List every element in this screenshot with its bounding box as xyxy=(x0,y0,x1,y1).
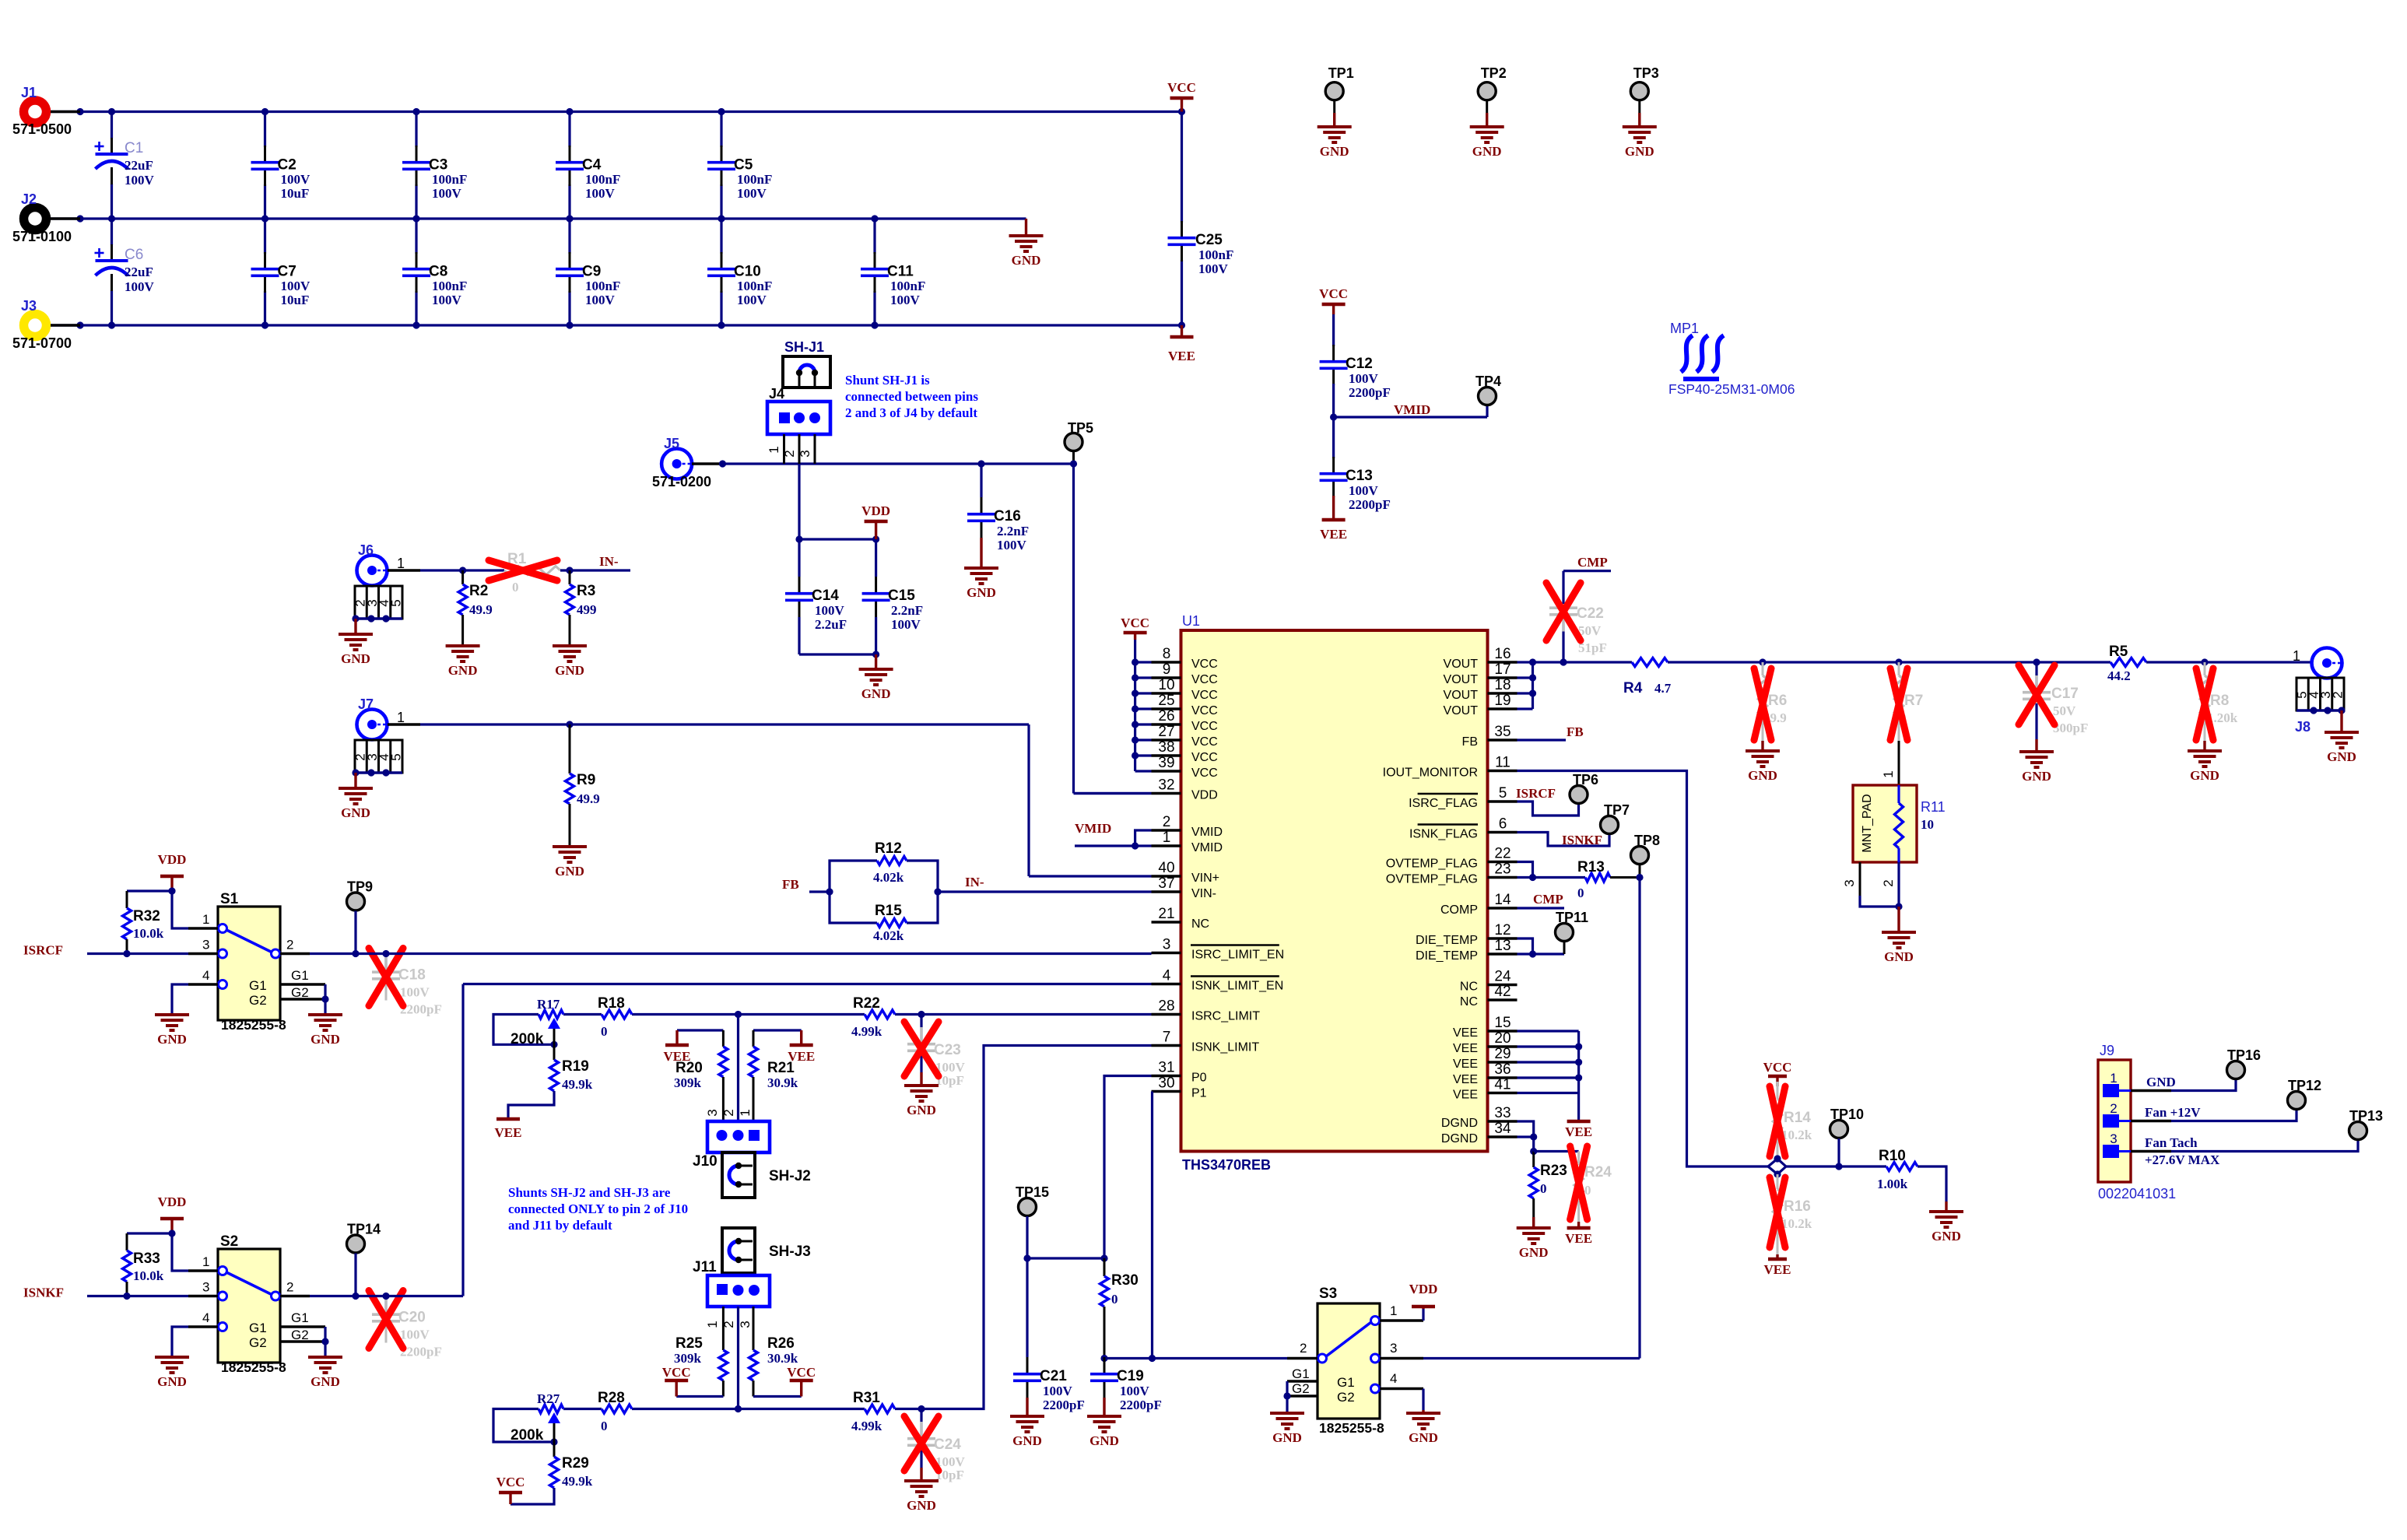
svg-text:1: 1 xyxy=(705,1321,720,1328)
resistor R4 4.7 xyxy=(1623,658,1763,697)
wire J5 to J4 and TP5 xyxy=(719,460,1074,467)
svg-text:VEE: VEE xyxy=(1453,1042,1478,1055)
connector J7 xyxy=(357,696,421,740)
svg-text:G1: G1 xyxy=(1337,1375,1355,1390)
svg-text:TP7: TP7 xyxy=(1604,802,1630,818)
svg-text:ISRC_LIMIT_EN: ISRC_LIMIT_EN xyxy=(1191,949,1284,962)
svg-text:2: 2 xyxy=(2110,1101,2117,1116)
svg-text:R17: R17 xyxy=(537,997,560,1012)
svg-text:OVTEMP_FLAG: OVTEMP_FLAG xyxy=(1386,858,1478,871)
power VDD for S2 xyxy=(158,1194,187,1233)
svg-text:2: 2 xyxy=(1163,814,1171,830)
ground C16 xyxy=(964,554,998,600)
svg-text:GND: GND xyxy=(2146,1075,2176,1089)
ground S2 G1 G2 xyxy=(308,1357,342,1389)
svg-text:26: 26 xyxy=(1158,708,1174,724)
power VDD for S1 xyxy=(158,852,187,891)
ground S3 pin 4 xyxy=(1406,1413,1440,1445)
wire J9 pin 3 to TP13 xyxy=(2131,1140,2358,1152)
svg-text:10.0k: 10.0k xyxy=(133,926,164,941)
resistor R16 10.2k crossed out xyxy=(1770,1174,1812,1254)
svg-text:100V: 100V xyxy=(737,186,767,201)
svg-text:4: 4 xyxy=(1163,968,1171,984)
svg-text:ISNK_LIMIT: ISNK_LIMIT xyxy=(1191,1041,1259,1054)
svg-text:J2: J2 xyxy=(21,191,37,207)
power VCC for U1 xyxy=(1121,616,1149,640)
svg-text:GND: GND xyxy=(1089,1433,1119,1448)
resistor R19 49.9k xyxy=(508,1044,593,1117)
resistor R5 44.2 xyxy=(2107,644,2146,683)
svg-text:16: 16 xyxy=(1494,646,1511,662)
svg-text:VCC: VCC xyxy=(1191,735,1218,749)
wire COMP pin 14 xyxy=(1518,907,1565,909)
power VCC for R14 xyxy=(1763,1060,1792,1086)
ground C23 xyxy=(904,1072,939,1117)
svg-text:3: 3 xyxy=(1842,879,1857,886)
svg-text:30.9k: 30.9k xyxy=(767,1351,798,1366)
svg-text:VEE: VEE xyxy=(1453,1058,1478,1071)
resistor R20 309k xyxy=(674,1030,728,1121)
wire MNT_PAD pins 2 3 to ground xyxy=(1842,862,1903,910)
svg-text:VDD: VDD xyxy=(158,1194,187,1209)
svg-text:GND: GND xyxy=(2327,749,2356,764)
svg-text:VMID: VMID xyxy=(1191,826,1223,839)
svg-text:GND: GND xyxy=(157,1374,187,1389)
svg-text:3: 3 xyxy=(738,1321,753,1328)
net label IN- at VIN- xyxy=(965,875,984,889)
svg-text:R19: R19 xyxy=(562,1058,589,1075)
wire S1 pin 4 to ground xyxy=(172,984,188,1015)
svg-text:R30: R30 xyxy=(1111,1272,1139,1289)
net label Fan +12V xyxy=(2145,1105,2201,1120)
svg-text:GND: GND xyxy=(157,1032,187,1047)
svg-text:J1: J1 xyxy=(21,85,37,100)
resistor R15 4.02k xyxy=(873,903,907,943)
capacitor C3 100nF 100V xyxy=(402,112,467,219)
svg-text:C18: C18 xyxy=(398,967,426,984)
test point TP13 xyxy=(2349,1108,2384,1140)
net label FB at pin 35 xyxy=(1567,724,1584,739)
svg-text:15: 15 xyxy=(1494,1015,1511,1031)
note shunts SH-J2 SH-J3 xyxy=(508,1185,688,1233)
wire J9 pin 1 to TP16 xyxy=(2131,1079,2236,1091)
svg-text:R7: R7 xyxy=(1904,693,1923,709)
capacitor C16 2.2nF 100V xyxy=(967,464,1029,554)
svg-text:40: 40 xyxy=(1158,860,1174,876)
svg-text:R21: R21 xyxy=(767,1060,795,1076)
wire J11 pin 2 down xyxy=(737,1307,739,1409)
svg-text:1: 1 xyxy=(1881,770,1896,777)
power VEE for R16 xyxy=(1764,1254,1791,1277)
svg-text:J3: J3 xyxy=(21,298,37,314)
svg-text:SH-J1: SH-J1 xyxy=(784,339,824,355)
power VEE for R19 xyxy=(495,1119,522,1140)
wire DIE_TEMP pins 12 13 xyxy=(1518,938,1565,958)
capacitor C5 100nF 100V xyxy=(707,112,772,219)
svg-text:J4: J4 xyxy=(769,386,784,402)
svg-text:0022041031: 0022041031 xyxy=(2098,1186,2176,1201)
svg-text:TP12: TP12 xyxy=(2288,1078,2321,1093)
capacitor C4 100nF 100V xyxy=(556,112,620,219)
ground R2 xyxy=(446,646,480,678)
resistor R18 0 xyxy=(598,995,632,1039)
svg-text:34: 34 xyxy=(1494,1121,1511,1137)
wire ISNKF net xyxy=(87,1293,188,1300)
wire DGND pins 33 34 xyxy=(1518,1121,1538,1155)
svg-text:1: 1 xyxy=(1390,1303,1397,1318)
svg-text:100V: 100V xyxy=(432,293,462,307)
svg-text:G2: G2 xyxy=(249,1335,267,1350)
svg-text:FSP40-25M31-0M06: FSP40-25M31-0M06 xyxy=(1668,381,1795,397)
capacitor C13 100V 2200pF xyxy=(1320,417,1391,517)
resistor R22 4.99k xyxy=(851,995,895,1039)
svg-text:J10: J10 xyxy=(693,1153,718,1170)
svg-text:50V: 50V xyxy=(2053,703,2076,718)
svg-text:10.0k: 10.0k xyxy=(133,1268,164,1283)
wire R25 to VCC xyxy=(676,1381,723,1397)
svg-text:C1: C1 xyxy=(125,140,143,156)
svg-text:100V: 100V xyxy=(281,279,311,293)
svg-text:0: 0 xyxy=(601,1024,608,1039)
svg-text:TP14: TP14 xyxy=(347,1222,381,1237)
svg-text:S3: S3 xyxy=(1319,1286,1337,1302)
wire P0 pin 31 xyxy=(1104,1076,1152,1259)
wire S2 pin 4 to ground xyxy=(172,1327,188,1357)
svg-text:ISNKF: ISNKF xyxy=(1562,833,1602,847)
svg-text:100nF: 100nF xyxy=(585,279,620,293)
svg-text:100V: 100V xyxy=(432,186,462,201)
wire ISNK_LIMIT line xyxy=(563,1046,1152,1413)
svg-text:TP2: TP2 xyxy=(1481,65,1507,81)
svg-text:R5: R5 xyxy=(2109,644,2128,660)
svg-text:GND: GND xyxy=(2190,768,2219,783)
svg-text:VCC: VCC xyxy=(1319,286,1348,301)
svg-text:13: 13 xyxy=(1494,938,1511,954)
wire ISRC_FLAG to TP6 xyxy=(1518,802,1579,816)
svg-text:C22: C22 xyxy=(1577,605,1604,622)
svg-text:VEE: VEE xyxy=(1453,1026,1478,1040)
junction dots bottom rail xyxy=(76,321,1185,328)
svg-text:P1: P1 xyxy=(1191,1087,1207,1100)
wire J10 pin 2 xyxy=(737,1015,739,1122)
capacitor C23 10pF crossed out xyxy=(904,1015,966,1089)
svg-text:J5: J5 xyxy=(664,436,679,451)
svg-text:24: 24 xyxy=(1494,969,1511,985)
svg-text:C2: C2 xyxy=(278,157,296,174)
svg-text:R4: R4 xyxy=(1623,680,1643,696)
svg-text:200k: 200k xyxy=(511,1031,544,1047)
svg-text:R8: R8 xyxy=(2210,693,2229,709)
svg-text:GND: GND xyxy=(1409,1430,1438,1445)
connector J2 571-0100 xyxy=(12,191,80,244)
ground MNT_PAD xyxy=(1882,907,1916,964)
resistor R25 309k xyxy=(674,1307,728,1397)
test point TP5 xyxy=(1065,420,1093,464)
ground R8 xyxy=(2188,741,2222,783)
svg-text:1: 1 xyxy=(202,912,209,927)
svg-text:IOUT_MONITOR: IOUT_MONITOR xyxy=(1383,766,1478,780)
svg-text:C12: C12 xyxy=(1346,356,1373,372)
resistor R26 30.9k xyxy=(749,1307,798,1397)
svg-text:10uF: 10uF xyxy=(281,186,310,201)
capacitor C7 100V 10uF xyxy=(251,219,311,325)
note shunt SH-J1 xyxy=(845,373,978,420)
svg-text:VOUT: VOUT xyxy=(1444,658,1479,671)
ground S3 G1 G2 xyxy=(1270,1413,1304,1445)
wire S2 G1 G2 to ground xyxy=(321,1327,328,1357)
svg-text:309k: 309k xyxy=(674,1075,702,1090)
svg-text:100V: 100V xyxy=(1198,261,1229,276)
svg-text:VDD: VDD xyxy=(158,852,187,867)
svg-text:2200pF: 2200pF xyxy=(1120,1398,1162,1412)
resistor R8 1.20k crossed out xyxy=(2196,662,2238,741)
wire R20 to VEE xyxy=(677,1030,723,1044)
svg-text:39: 39 xyxy=(1158,755,1174,771)
svg-text:R22: R22 xyxy=(853,995,880,1012)
wire VOUT main xyxy=(1518,658,1633,665)
capacitor C24 10pF crossed out xyxy=(904,1409,966,1483)
svg-text:VEE: VEE xyxy=(1168,349,1195,363)
svg-text:2: 2 xyxy=(286,938,293,952)
svg-text:C6: C6 xyxy=(125,247,143,263)
svg-text:10.2k: 10.2k xyxy=(1781,1216,1812,1231)
svg-text:44.2: 44.2 xyxy=(2107,668,2131,683)
svg-text:R11: R11 xyxy=(1921,799,1946,815)
svg-text:49.9k: 49.9k xyxy=(562,1077,593,1092)
svg-text:2200pF: 2200pF xyxy=(1349,385,1391,400)
ground R9 xyxy=(553,847,587,879)
svg-text:R14: R14 xyxy=(1784,1110,1811,1126)
mount pad MNT_PAD with resistor R11 xyxy=(1853,785,1946,862)
wire VMID node xyxy=(1330,405,1487,421)
wire VOUT bus xyxy=(1518,662,1537,709)
connector J6 xyxy=(357,542,421,586)
svg-text:100V: 100V xyxy=(585,293,616,307)
capacitor C19 2200pF xyxy=(1090,1357,1162,1412)
svg-text:VOUT: VOUT xyxy=(1444,689,1479,702)
jumper shunt SH-J2 xyxy=(722,1152,811,1198)
svg-text:OVTEMP_FLAG: OVTEMP_FLAG xyxy=(1386,873,1478,886)
svg-text:4.99k: 4.99k xyxy=(851,1419,882,1433)
resistor R1 0 crossed out xyxy=(489,551,560,595)
ground C17 xyxy=(2019,739,2054,784)
svg-text:J9: J9 xyxy=(2100,1043,2114,1058)
svg-text:ISNKF: ISNKF xyxy=(23,1286,64,1300)
wire TP5 to pin 32 VDD xyxy=(1070,460,1152,793)
svg-text:FB: FB xyxy=(1462,735,1478,749)
svg-text:571-0500: 571-0500 xyxy=(12,121,72,137)
power VEE for C13 xyxy=(1320,517,1347,542)
svg-text:100V: 100V xyxy=(585,186,616,201)
svg-text:VMID: VMID xyxy=(1191,841,1223,854)
potentiometer R27 200k xyxy=(493,1391,563,1446)
svg-text:ISNK_LIMIT_EN: ISNK_LIMIT_EN xyxy=(1191,980,1283,993)
capacitor C12 100V 2200pF xyxy=(1320,314,1391,417)
svg-text:TP15: TP15 xyxy=(1016,1184,1049,1200)
svg-text:2200pF: 2200pF xyxy=(400,1002,442,1017)
test point TP7 xyxy=(1601,802,1630,834)
wire VDD node horizontal xyxy=(795,535,879,542)
resistor R30 0 xyxy=(1100,1258,1139,1359)
switch S1 1825255-8 xyxy=(188,891,325,1033)
ground C24 xyxy=(904,1468,939,1513)
svg-text:VEE: VEE xyxy=(1565,1231,1592,1246)
svg-text:TP11: TP11 xyxy=(1556,910,1588,925)
svg-text:4.02k: 4.02k xyxy=(873,870,904,885)
svg-text:COMP: COMP xyxy=(1440,903,1478,917)
svg-text:R16: R16 xyxy=(1784,1198,1811,1215)
svg-text:100V: 100V xyxy=(890,293,921,307)
svg-text:100V: 100V xyxy=(400,1328,430,1342)
svg-text:VIN-: VIN- xyxy=(1191,887,1216,900)
svg-text:TP1: TP1 xyxy=(1328,65,1354,81)
svg-text:+27.6V MAX: +27.6V MAX xyxy=(2145,1152,2220,1167)
svg-text:G2: G2 xyxy=(1337,1390,1355,1405)
test point TP4 xyxy=(1475,374,1501,405)
svg-text:2200pF: 2200pF xyxy=(1349,497,1391,512)
svg-text:NC: NC xyxy=(1460,995,1478,1009)
svg-text:VOUT: VOUT xyxy=(1444,673,1479,686)
svg-text:5: 5 xyxy=(1499,785,1507,802)
svg-text:C16: C16 xyxy=(994,508,1021,524)
svg-text:MNT_PAD: MNT_PAD xyxy=(1861,794,1874,852)
test point TP14 xyxy=(347,1222,381,1300)
svg-text:GND: GND xyxy=(1320,144,1349,159)
svg-text:100nF: 100nF xyxy=(1198,247,1233,262)
svg-text:GND: GND xyxy=(1932,1229,1961,1244)
svg-text:VEE: VEE xyxy=(1764,1262,1791,1277)
svg-text:TP13: TP13 xyxy=(2349,1108,2383,1124)
svg-text:NC: NC xyxy=(1191,917,1209,931)
svg-text:571-0700: 571-0700 xyxy=(12,335,72,351)
connector J4 3-pin header xyxy=(767,386,830,464)
svg-text:1: 1 xyxy=(767,446,781,453)
svg-text:10: 10 xyxy=(1921,817,1934,832)
svg-text:30: 30 xyxy=(1158,1075,1174,1092)
svg-text:100V: 100V xyxy=(281,172,311,187)
wire R5 to J8 xyxy=(2146,658,2311,665)
svg-text:1: 1 xyxy=(2110,1071,2117,1086)
svg-text:IN-: IN- xyxy=(599,554,619,569)
net label ISRCF xyxy=(1516,786,1556,801)
svg-text:GND: GND xyxy=(1884,949,1914,964)
test point TP12 xyxy=(2288,1078,2322,1110)
svg-text:R12: R12 xyxy=(875,840,902,857)
svg-text:Fan +12V: Fan +12V xyxy=(2145,1105,2201,1120)
svg-text:R13: R13 xyxy=(1577,859,1605,875)
svg-text:5: 5 xyxy=(388,599,403,606)
svg-text:300pF: 300pF xyxy=(2053,721,2088,735)
svg-text:connected between pins: connected between pins xyxy=(845,389,978,404)
svg-text:10.2k: 10.2k xyxy=(1781,1128,1812,1142)
svg-text:VEE: VEE xyxy=(1565,1124,1592,1139)
svg-text:TP4: TP4 xyxy=(1475,374,1501,389)
svg-text:3: 3 xyxy=(798,450,812,457)
net label Fan Tach xyxy=(2145,1135,2198,1150)
resistor R13 0 xyxy=(1577,859,1640,900)
svg-text:4.02k: 4.02k xyxy=(873,928,904,943)
svg-text:GND: GND xyxy=(448,663,478,678)
svg-text:R23: R23 xyxy=(1540,1163,1567,1179)
svg-text:TP3: TP3 xyxy=(1633,65,1659,81)
svg-text:499: 499 xyxy=(577,602,597,617)
svg-text:100nF: 100nF xyxy=(890,279,925,293)
wire VCC top rail xyxy=(50,111,1182,113)
svg-text:1.00k: 1.00k xyxy=(1877,1177,1908,1191)
svg-text:3: 3 xyxy=(1390,1341,1397,1356)
svg-text:GND: GND xyxy=(1472,144,1502,159)
svg-text:VMID: VMID xyxy=(1394,402,1430,417)
resistor R3x 10.0k for S2 xyxy=(123,1233,164,1296)
svg-text:3: 3 xyxy=(202,938,209,952)
svg-text:2200pF: 2200pF xyxy=(1043,1398,1085,1412)
power VEE bottom rail xyxy=(1168,325,1195,363)
svg-text:18: 18 xyxy=(1494,677,1511,693)
net label CMP at pin 14 xyxy=(1533,892,1563,907)
connector J6 shield pins xyxy=(339,586,403,666)
wire ISRC_LIMIT line xyxy=(563,1011,1152,1018)
test point TP16 xyxy=(2227,1047,2261,1079)
connector J9 0022041031 xyxy=(2098,1043,2176,1201)
svg-text:1: 1 xyxy=(202,1254,209,1269)
connector J8 xyxy=(2293,648,2342,735)
svg-text:VCC: VCC xyxy=(1191,720,1218,733)
svg-text:VEE: VEE xyxy=(1453,1089,1478,1102)
wire P1 pin 30 xyxy=(1149,1092,1156,1363)
svg-text:ISRCF: ISRCF xyxy=(23,943,63,958)
svg-text:VCC: VCC xyxy=(1191,689,1218,702)
svg-text:GND: GND xyxy=(1012,253,1041,268)
svg-text:100nF: 100nF xyxy=(737,279,772,293)
heatsink MP1 FSP40-25M31-0M06 xyxy=(1668,321,1795,397)
capacitor C22 51pF crossed out xyxy=(1546,571,1607,662)
test point TP3 xyxy=(1623,65,1659,159)
svg-text:R31: R31 xyxy=(853,1390,880,1406)
svg-text:28: 28 xyxy=(1158,998,1174,1015)
svg-text:1: 1 xyxy=(2293,648,2300,664)
svg-text:R24: R24 xyxy=(1584,1164,1612,1180)
resistor R21 30.9k xyxy=(749,1030,798,1121)
test point TP10 xyxy=(1830,1107,1865,1166)
svg-text:9: 9 xyxy=(1163,661,1171,678)
svg-text:GND: GND xyxy=(907,1103,936,1117)
svg-text:41: 41 xyxy=(1494,1077,1511,1093)
wire IN- to pin 37 xyxy=(934,888,1151,895)
svg-text:GND: GND xyxy=(907,1498,936,1513)
svg-text:17: 17 xyxy=(1494,661,1511,678)
svg-text:1825255-8: 1825255-8 xyxy=(221,1017,286,1033)
svg-text:1825255-8: 1825255-8 xyxy=(1319,1420,1384,1436)
resistor R29 49.9k xyxy=(511,1442,593,1504)
svg-text:IN-: IN- xyxy=(965,875,984,889)
svg-text:100V: 100V xyxy=(997,538,1027,553)
wire S3 G1 G2 to ground xyxy=(1283,1381,1290,1413)
svg-text:VCC: VCC xyxy=(1121,616,1149,630)
svg-text:C5: C5 xyxy=(734,157,753,174)
svg-text:20: 20 xyxy=(1494,1030,1511,1047)
svg-text:1: 1 xyxy=(397,556,405,571)
wire VDD pin 32 xyxy=(1074,792,1152,795)
svg-text:GND: GND xyxy=(1519,1245,1549,1260)
resistor R9 49.9 xyxy=(566,724,600,847)
resistor R12 4.02k xyxy=(873,840,907,885)
svg-text:R28: R28 xyxy=(598,1390,625,1406)
svg-text:0: 0 xyxy=(1111,1292,1118,1307)
svg-text:571-0200: 571-0200 xyxy=(652,474,711,489)
svg-text:GND: GND xyxy=(341,651,370,666)
svg-text:G1: G1 xyxy=(291,1310,309,1325)
net label FB xyxy=(782,877,799,892)
